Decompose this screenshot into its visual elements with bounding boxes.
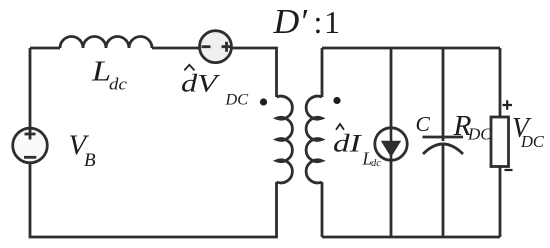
svg-text:B: B bbox=[84, 150, 96, 171]
svg-text:DC: DC bbox=[520, 132, 545, 151]
svg-text:dc: dc bbox=[371, 158, 381, 169]
svg-text:dc: dc bbox=[109, 75, 127, 94]
svg-text:C: C bbox=[416, 112, 431, 136]
svg-text::: : bbox=[314, 4, 323, 40]
svg-text:D′: D′ bbox=[272, 1, 308, 41]
svg-text:1: 1 bbox=[324, 4, 340, 40]
svg-text:dI: dI bbox=[333, 130, 362, 157]
svg-text:L: L bbox=[91, 55, 111, 86]
svg-text:DC: DC bbox=[467, 125, 492, 144]
svg-text:dV: dV bbox=[181, 70, 221, 98]
svg-text:DC: DC bbox=[224, 92, 248, 109]
